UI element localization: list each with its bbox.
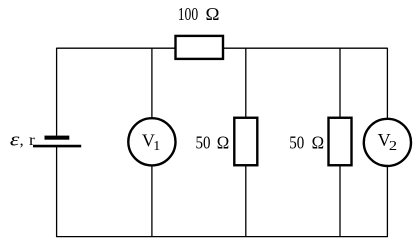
wire: top horizontal	[57, 47, 388, 49]
wire: 50ohm no.1 branch	[245, 48, 247, 236]
wire: V1 branch	[151, 48, 153, 236]
resistor 50 ohm no.1 box	[234, 118, 257, 166]
resistor 50 ohm no.2 box	[329, 118, 352, 166]
wire: 50ohm no.2 branch	[339, 48, 341, 236]
svg-text:ε: ε	[10, 129, 20, 150]
svg-text:Ω: Ω	[217, 132, 230, 152]
wire: right side / V2 branch	[386, 48, 388, 237]
battery cell: long thin plate (bottom)	[33, 145, 81, 148]
svg-text:r: r	[29, 132, 36, 149]
wire: bottom horizontal	[57, 236, 388, 238]
voltmeter V1 circle	[128, 118, 175, 165]
svg-text:Ω: Ω	[312, 132, 325, 152]
svg-text:,: ,	[20, 132, 24, 149]
svg-text:2: 2	[389, 139, 397, 154]
resistor 100 ohm box	[176, 36, 224, 59]
svg-text:1: 1	[153, 139, 160, 154]
battery cell: short thick plate (top)	[45, 136, 70, 140]
svg-text:Ω: Ω	[206, 4, 220, 24]
svg-text:100: 100	[178, 4, 199, 24]
svg-text:50: 50	[196, 132, 211, 152]
voltmeter V2 circle	[364, 119, 411, 166]
wire: left side below battery	[56, 146, 58, 237]
svg-text:50: 50	[289, 132, 304, 152]
wire: left side above battery	[56, 48, 58, 136]
